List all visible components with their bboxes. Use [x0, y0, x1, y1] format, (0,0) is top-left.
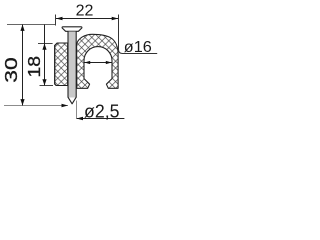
nail head	[62, 27, 82, 32]
nail tip	[68, 98, 76, 104]
extension line 22 right / leader ø16	[119, 15, 158, 54]
arrow ø2,5 left	[62, 104, 69, 108]
dimension line 18	[44, 25, 46, 86]
svg-text:18: 18	[24, 56, 44, 78]
clip boss (left block through which nail passes)	[55, 43, 68, 86]
svg-text:30: 30	[1, 57, 21, 83]
dimension line 30	[22, 25, 24, 106]
svg-text:22: 22	[76, 3, 94, 20]
svg-text:ø16: ø16	[124, 39, 152, 56]
dimension line 22	[56, 18, 118, 20]
extension line ø2,5 right	[76, 101, 78, 119]
extension line 18 top	[38, 43, 53, 45]
inner diameter double arrow	[84, 62, 111, 64]
nail shaft	[68, 32, 76, 98]
extension line top (nail head level)	[7, 24, 56, 26]
leader ø2,5	[77, 118, 125, 120]
extension line bottom (nail tip level)	[4, 105, 68, 107]
extension line 22 left	[55, 15, 57, 26]
clip horseshoe (arc + walls + retaining lips)	[77, 34, 119, 88]
extension line 18 bottom	[40, 85, 54, 87]
svg-text:ø2,5: ø2,5	[84, 100, 120, 121]
